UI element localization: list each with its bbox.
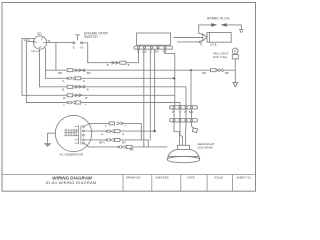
row R5 Y — [26, 103, 180, 105]
wire bottom-right pin down — [44, 48, 45, 79]
wire CDI to coil upper pair — [174, 37, 202, 39]
svg-text:BR: BR — [225, 71, 229, 75]
svg-text:SPARK PLUG: SPARK PLUG — [207, 17, 230, 21]
generator row gD — [89, 146, 149, 148]
R1 branch down to strip1 — [190, 70, 192, 105]
CDI unit box — [137, 33, 171, 45]
svg-text:SWITCH: SWITCH — [84, 35, 98, 39]
generator winding coil — [64, 129, 77, 136]
svg-text:BR: BR — [59, 71, 63, 75]
wire drop from TL wire — [55, 43, 57, 71]
gB end junction dot — [153, 130, 155, 132]
svg-text:G: G — [101, 132, 103, 136]
svg-text:CD: CD — [37, 32, 42, 36]
svg-text:BR: BR — [202, 71, 206, 75]
generator ground wire — [48, 133, 56, 143]
headlight — [167, 145, 200, 162]
svg-text:TL: TL — [47, 39, 51, 43]
svg-text:Y: Y — [63, 103, 65, 107]
CDI pin5 wire jog right then down to strip1 — [165, 49, 175, 105]
svg-text:COIL: COIL — [210, 43, 217, 47]
spark plug symbol — [239, 30, 244, 33]
tail light bulb — [232, 48, 238, 59]
wire left lower — [26, 41, 34, 102]
svg-text:(12V 3.4w): (12V 3.4w) — [213, 55, 228, 59]
svg-text:B/Y: B/Y — [122, 141, 127, 145]
svg-text:B: B — [62, 87, 64, 91]
svg-text:G: G — [200, 43, 202, 47]
svg-text:G: G — [122, 132, 124, 136]
CDI pin4 wire long down to gB dot — [154, 49, 156, 131]
connector on IG wire — [112, 61, 127, 64]
CDI pin strip — [134, 46, 173, 49]
row R3 B — [40, 87, 187, 105]
title table cell lines — [152, 175, 233, 192]
svg-text:HLS: HLS — [24, 38, 30, 42]
svg-text:B/Y: B/Y — [155, 49, 159, 53]
generator row gA — [90, 123, 142, 139]
title block divider — [122, 175, 124, 192]
connector strip 2 — [170, 119, 198, 122]
border frame — [2, 3, 256, 192]
engine stop switch contacts — [73, 42, 75, 44]
svg-text:B: B — [107, 63, 109, 67]
svg-text:DATE: DATE — [188, 176, 195, 180]
AC generator circle — [55, 115, 91, 151]
row R4 W — [22, 94, 174, 96]
generator pin fan wires — [84, 123, 90, 146]
CDI pin2 wire long down — [143, 49, 145, 146]
engine stop switch arm — [76, 35, 80, 40]
generator terminal bar — [75, 125, 85, 144]
tail light wire down — [234, 59, 236, 83]
wire HLS left upper — [22, 39, 35, 96]
svg-text:SHEET NO.: SHEET NO. — [237, 176, 252, 180]
R1 junction dot — [190, 69, 192, 71]
svg-text:B: B — [137, 49, 139, 53]
tilted connector box — [192, 128, 197, 133]
svg-text:L/W: L/W — [142, 49, 147, 53]
svg-text:B: B — [128, 63, 130, 67]
wire TL to engine stop switch — [47, 42, 73, 44]
wire CDI to coil G — [178, 41, 200, 43]
svg-text:BR: BR — [87, 71, 91, 75]
svg-text:(12V 60/W): (12V 60/W) — [198, 146, 213, 150]
R2 junction dot — [173, 77, 175, 79]
svg-text:HL-H: HL-H — [32, 49, 39, 53]
svg-text:81-84 WIRING DIAGRAM: 81-84 WIRING DIAGRAM — [46, 180, 97, 185]
strip interconnect wires — [174, 109, 192, 118]
spark gap arrows — [211, 23, 217, 27]
R1 tail connector — [211, 69, 224, 72]
svg-text:BR/Y: BR/Y — [99, 141, 105, 145]
connector strip 1 — [170, 106, 198, 109]
ground arrow — [233, 83, 238, 87]
wire bottom pin down — [39, 49, 41, 87]
svg-text:Y: Y — [85, 103, 87, 107]
svg-text:SCALE: SCALE — [214, 176, 223, 180]
svg-text:G: G — [62, 79, 64, 83]
lighting switch circle CD — [33, 36, 46, 49]
row R1 BR tail light feed — [46, 69, 236, 71]
ignition coil — [203, 33, 231, 43]
spark plug wire — [199, 25, 242, 33]
svg-text:B: B — [87, 87, 89, 91]
svg-text:Y: Y — [124, 124, 126, 128]
generator row gB — [90, 130, 155, 132]
title block top line — [2, 174, 256, 176]
strip2 output wires to headlight — [174, 122, 193, 145]
switch pin ticks — [34, 38, 45, 48]
G terminal circle — [199, 41, 201, 43]
generator row gC — [90, 140, 167, 147]
svg-text:B/K: B/K — [130, 148, 135, 152]
CDI pin3 wire long down — [149, 49, 151, 139]
row R2 G — [46, 77, 174, 79]
svg-text:E: E — [73, 45, 75, 49]
ground symbol — [45, 144, 51, 147]
svg-text:DRAWN BY: DRAWN BY — [126, 176, 141, 180]
svg-text:CHECKED: CHECKED — [155, 176, 169, 180]
R1 connector left — [67, 69, 85, 72]
svg-text:W: W — [85, 96, 88, 100]
svg-text:G: G — [83, 79, 85, 83]
svg-text:AC GENERATOR: AC GENERATOR — [60, 152, 85, 156]
wire IG to CDI pin1 — [83, 43, 139, 63]
